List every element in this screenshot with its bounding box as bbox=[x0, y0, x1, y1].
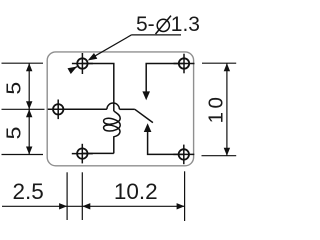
svg-text:5: 5 bbox=[2, 127, 25, 140]
wire from H2 to NC contact bbox=[146, 64, 184, 93]
hole H4 (coil pin, bottom-left) bbox=[72, 144, 93, 164]
bottom extension line A (x=67.1) bbox=[66, 172, 68, 220]
svg-text:1.3: 1.3 bbox=[171, 13, 200, 36]
wire from crossover to armature pivot bbox=[119, 108, 134, 110]
arrow right at x=67.1 (2.5 left) bbox=[59, 203, 67, 209]
bottom dimension line bbox=[2, 205, 184, 207]
wire from H3 to crossover bbox=[58, 108, 107, 110]
right dimension line 10 bbox=[226, 63, 228, 156]
wire crossover hop over coil wire bbox=[107, 103, 120, 109]
hole H3 (common pin, middle-left) bbox=[48, 100, 69, 120]
opposite arrow tail bbox=[69, 67, 77, 72]
hole callout diameter symbol circle bbox=[157, 19, 169, 31]
hole callout diameter symbol slash bbox=[156, 16, 172, 34]
svg-text:5: 5 bbox=[2, 82, 25, 95]
arrow left at x=82.3 (10.2 left / 2.5 right) bbox=[82, 203, 90, 209]
hole H5 (NO contact pin, bottom-right) bbox=[173, 145, 194, 165]
coil L1 (spiral loops) bbox=[104, 111, 121, 153]
svg-text:5-: 5- bbox=[136, 13, 155, 36]
callout leader line bbox=[94, 35, 132, 57]
NC contact arrow (points down) bbox=[142, 91, 150, 100]
svg-text:10.2: 10.2 bbox=[114, 179, 158, 204]
right extension line top bbox=[202, 62, 236, 64]
left extension line bottom (hole row 2) bbox=[2, 154, 44, 156]
bottom extension line C (x=184.4) bbox=[184, 171, 186, 221]
left extension line top (hole row 1) bbox=[2, 62, 44, 64]
arrow right at x=184.4 (10.2 right) bbox=[177, 203, 185, 209]
arrow up at right dim top bbox=[224, 63, 230, 71]
wire from coil bottom to H4 bbox=[82, 152, 114, 154]
arrow down at y=154.5 bbox=[26, 147, 32, 155]
bottom extension line B (x=82.3) bbox=[81, 172, 83, 220]
wire from NO contact to H5 bbox=[148, 131, 184, 155]
arrow down at y=109.3 (upper segment) bbox=[26, 101, 32, 109]
relay body outline bbox=[47, 52, 193, 166]
svg-text:10: 10 bbox=[205, 94, 228, 124]
arrow up at y=63.2 bbox=[26, 63, 32, 71]
arrow down at right dim bottom bbox=[224, 148, 230, 156]
opposite diameter arrow (tip at hole lower left) bbox=[68, 67, 78, 74]
callout leader arrow (tip at hole upper right) bbox=[88, 53, 98, 60]
svg-text:2.5: 2.5 bbox=[12, 179, 43, 204]
hole H1 (coil pin, top-left) bbox=[72, 53, 93, 74]
callout shelf line bbox=[132, 34, 181, 36]
arrow up at y=109.3 (lower segment) bbox=[26, 109, 32, 117]
left dimension line 5+5 bbox=[28, 63, 30, 154]
armature blade (movable contact) bbox=[135, 109, 153, 122]
right extension line bottom bbox=[202, 155, 237, 157]
NO contact arrow (points up) bbox=[144, 123, 152, 132]
wire from H1 to coil top bbox=[82, 64, 113, 112]
hole H2 (NC contact pin, top-right) bbox=[174, 54, 195, 74]
left extension line middle (hole H3 row) bbox=[2, 108, 45, 110]
